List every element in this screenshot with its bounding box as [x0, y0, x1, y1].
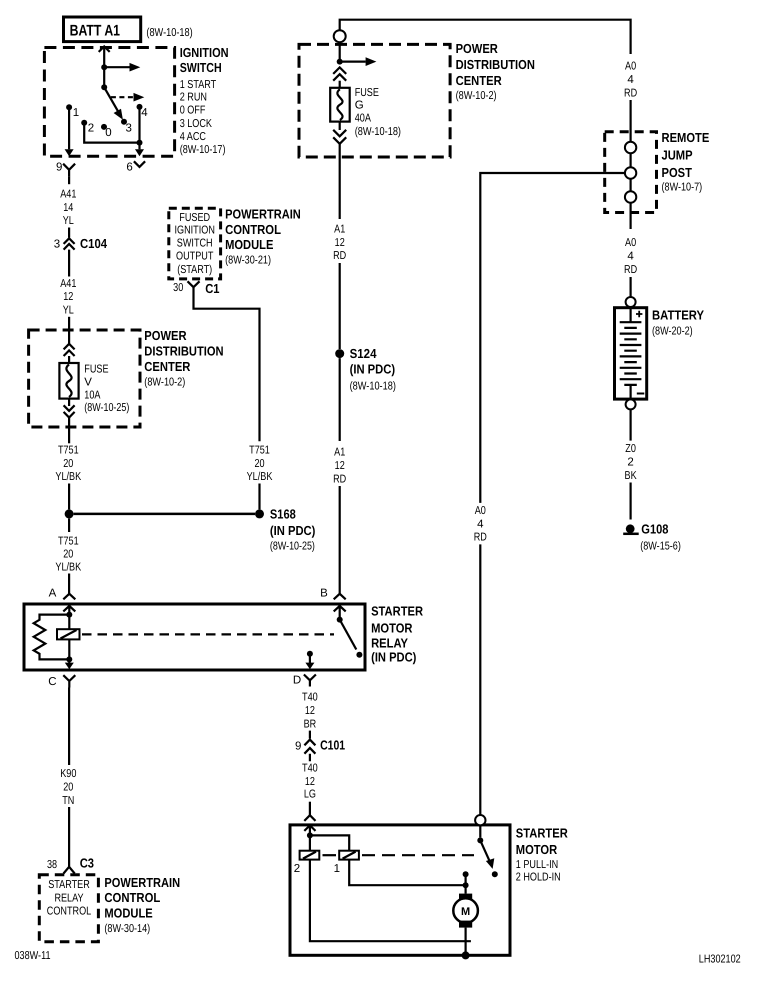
svg-text:POWERTRAIN: POWERTRAIN [104, 875, 180, 890]
svg-text:(8W-20-2): (8W-20-2) [652, 325, 693, 337]
svg-text:A: A [49, 588, 57, 600]
fuse G 40A [330, 87, 401, 138]
node relay common contact [337, 617, 343, 623]
wire eyelet to junction [339, 42, 341, 61]
pin B of relay [320, 588, 346, 620]
svg-text:YL/BK: YL/BK [247, 471, 273, 483]
svg-text:1: 1 [73, 107, 79, 119]
wire C1 to S168 column [194, 297, 260, 441]
wire relay coil [68, 615, 70, 660]
connector chevrons below fuse V [64, 405, 75, 417]
wire to starter motor solenoid [309, 802, 311, 816]
wire top feed line [340, 20, 631, 54]
svg-text:S168: S168 [270, 507, 296, 522]
svg-text:IGNITION: IGNITION [180, 45, 229, 60]
wire to battery [629, 277, 631, 297]
wire branch jump post to starter feed [480, 173, 625, 503]
svg-text:T751: T751 [58, 536, 79, 548]
svg-text:A41: A41 [60, 278, 76, 290]
svg-text:(8W-10-25): (8W-10-25) [270, 541, 315, 553]
svg-text:A0: A0 [625, 60, 636, 72]
wire A41 14 YL segment [68, 177, 70, 185]
svg-text:038W-11: 038W-11 [15, 950, 51, 962]
svg-text:2 RUN: 2 RUN [180, 91, 207, 103]
label wire A1 12 RD upper [333, 223, 346, 262]
label powertrain control module upper [225, 206, 301, 266]
svg-text:T40: T40 [302, 691, 318, 703]
wire stud to contact [479, 825, 481, 837]
wire to relay pin B [339, 486, 341, 594]
svg-text:POWERTRAIN: POWERTRAIN [225, 206, 301, 221]
svg-text:FUSE: FUSE [84, 364, 108, 376]
ground G108 [623, 521, 681, 552]
wire K90 segment [68, 688, 70, 766]
wire A0 down to starter motor [479, 544, 481, 815]
label wire T751 20 YL/BK upper [55, 445, 81, 484]
chevron inside starter entry [304, 825, 315, 835]
node splice S124 [335, 346, 396, 392]
svg-text:40A: 40A [355, 113, 371, 125]
svg-text:12: 12 [63, 291, 73, 303]
wire to C3 [68, 807, 70, 867]
label wire A0 4 RD to battery [624, 237, 637, 276]
svg-text:4: 4 [141, 107, 148, 119]
wire to fuse G [339, 81, 341, 88]
svg-text:SWITCH: SWITCH [177, 238, 213, 250]
wiper arrow solid right (RUN position) [104, 63, 140, 72]
svg-text:9: 9 [295, 741, 301, 753]
svg-text:(8W-10-25): (8W-10-25) [84, 402, 129, 414]
label wire A0 4 RD to starter [474, 505, 487, 544]
svg-text:YL: YL [63, 304, 75, 316]
svg-text:1 PULL-IN: 1 PULL-IN [516, 859, 558, 871]
svg-text:V: V [84, 376, 92, 388]
remote jump post dashed box [605, 132, 657, 213]
svg-text:D: D [293, 675, 301, 687]
svg-text:A1: A1 [334, 223, 345, 235]
svg-text:A0: A0 [475, 505, 486, 517]
node relay contact to pin D [307, 651, 313, 657]
svg-text:IGNITION: IGNITION [175, 225, 215, 237]
resistor in relay [34, 615, 70, 660]
svg-text:(IN PDC): (IN PDC) [270, 523, 316, 538]
wire T751 upper segment [68, 418, 70, 444]
svg-text:3 LOCK: 3 LOCK [180, 118, 213, 130]
svg-text:POWER: POWER [456, 41, 499, 56]
svg-text:T40: T40 [302, 762, 318, 774]
wire stud2 to stud3 [629, 179, 631, 192]
wire fuse G to chevrons [339, 122, 341, 130]
svg-text:POST: POST [662, 165, 692, 180]
svg-text:M: M [461, 906, 470, 918]
svg-text:12: 12 [335, 237, 345, 249]
label wire A41 14 YL [60, 189, 76, 228]
svg-text:C1: C1 [205, 281, 219, 296]
svg-text:A0: A0 [625, 237, 636, 249]
wire relay coil to pin C arrow [65, 659, 74, 669]
label remote jump post [662, 130, 710, 194]
svg-text:(8W-10-2): (8W-10-2) [144, 376, 185, 388]
svg-text:9: 9 [56, 162, 62, 174]
svg-text:A41: A41 [60, 189, 76, 201]
solenoid coil 2 hold-in [294, 851, 320, 875]
svg-text:BATT A1: BATT A1 [70, 22, 121, 39]
connector chevrons above fuse V [64, 344, 75, 356]
relay coil K1 [57, 629, 80, 639]
svg-text:YL/BK: YL/BK [55, 562, 81, 574]
svg-text:TN: TN [62, 795, 74, 807]
node splice S168 [255, 507, 315, 553]
node junction terminal 6 [137, 140, 143, 146]
node jump post stud 1 [625, 142, 636, 153]
node jump post stud 2 [625, 167, 636, 178]
wire to splice junction [68, 484, 70, 510]
starter motor relay box [24, 604, 365, 670]
svg-text:SWITCH: SWITCH [180, 60, 222, 75]
powertrain control module upper dashed box [169, 208, 221, 279]
pin A of relay [49, 588, 76, 615]
svg-text:RD: RD [333, 250, 346, 262]
svg-text:CENTER: CENTER [456, 73, 503, 88]
label starter motor relay [371, 604, 424, 665]
svg-text:POWER: POWER [144, 328, 187, 343]
node contact 0 [101, 124, 112, 139]
svg-text:BR: BR [304, 718, 317, 730]
wire A41 12 YL segment [68, 250, 70, 277]
wire feed to hold-in coil 2 [309, 835, 311, 850]
connector C1 pin 30 [173, 281, 219, 297]
svg-text:T751: T751 [249, 445, 270, 457]
wire to S124 [339, 263, 341, 349]
node contact 4 [137, 104, 149, 119]
label starter motor [516, 826, 569, 884]
svg-text:MOTOR: MOTOR [371, 620, 413, 635]
svg-text:2: 2 [294, 863, 300, 875]
svg-text:12: 12 [305, 776, 315, 788]
svg-text:C3: C3 [80, 856, 94, 871]
svg-text:STARTER: STARTER [371, 604, 424, 619]
svg-text:(8W-10-17): (8W-10-17) [180, 144, 226, 156]
wire to relay pin A [68, 574, 70, 594]
wire splice bus to S168 [74, 513, 255, 516]
dashed mechanical link of solenoid [323, 854, 475, 856]
svg-text:RD: RD [624, 264, 637, 276]
svg-text:20: 20 [63, 549, 73, 561]
label wire T40 12 BR [302, 691, 318, 730]
svg-text:4: 4 [627, 74, 634, 86]
svg-text:LG: LG [304, 789, 316, 801]
svg-text:CONTROL: CONTROL [47, 905, 92, 917]
battery B1 [615, 297, 705, 409]
wire PCM column to S168 [258, 484, 260, 510]
label wire Z0 2 BK [625, 443, 637, 482]
svg-text:T751: T751 [58, 445, 79, 457]
svg-text:0 OFF: 0 OFF [180, 105, 206, 117]
wire A1 12 RD lower segment [339, 358, 341, 441]
svg-text:(START): (START) [177, 264, 212, 276]
label powertrain control module lower [104, 875, 180, 935]
svg-text:(8W-10-2): (8W-10-2) [456, 90, 497, 102]
label wire T40 12 LG [302, 762, 318, 800]
svg-text:1 START: 1 START [180, 79, 217, 91]
node contact 3 [121, 119, 132, 135]
ignition switch S1 dashed box [44, 48, 174, 157]
svg-text:4: 4 [627, 251, 634, 263]
wire to ground G108 [629, 483, 631, 520]
arrow feed to other circuits [340, 57, 377, 66]
wire to C101 [309, 731, 311, 739]
svg-text:(8W-10-18): (8W-10-18) [355, 126, 401, 138]
wiper arm arrow to contact 3 [104, 87, 123, 120]
label wire A0 4 RD top right [624, 60, 637, 99]
relay moving contact arm [340, 620, 363, 658]
label wire A1 12 RD lower [333, 446, 346, 485]
wire fuse V to chevrons [68, 399, 70, 406]
svg-text:BATTERY: BATTERY [652, 308, 704, 323]
dashed mechanical link of relay [82, 633, 334, 635]
svg-text:A1: A1 [334, 446, 345, 458]
svg-text:1: 1 [334, 863, 340, 875]
svg-text:(8W-30-14): (8W-30-14) [104, 923, 150, 935]
svg-text:2 HOLD-IN: 2 HOLD-IN [516, 872, 561, 884]
node relay coil bottom [66, 656, 72, 662]
svg-text:2: 2 [88, 123, 94, 135]
label wire K90 20 TN [60, 768, 76, 807]
svg-text:OUTPUT: OUTPUT [176, 250, 213, 262]
svg-text:C101: C101 [320, 737, 345, 752]
svg-text:DISTRIBUTION: DISTRIBUTION [144, 344, 223, 359]
svg-text:4 ACC: 4 ACC [180, 131, 206, 143]
svg-text:38: 38 [47, 859, 57, 871]
svg-text:RD: RD [624, 87, 637, 99]
svg-text:BK: BK [625, 470, 637, 482]
wire coil 1 to motor feed [349, 860, 465, 886]
chevron at starter motor entry [304, 815, 315, 821]
wire Z0 segment [629, 410, 631, 441]
svg-text:30: 30 [173, 282, 183, 294]
svg-text:20: 20 [63, 782, 73, 794]
node coil1 junction on motor wire [463, 882, 469, 888]
svg-text:(8W-10-7): (8W-10-7) [662, 181, 703, 193]
svg-text:C: C [48, 676, 56, 688]
svg-text:FUSED: FUSED [179, 212, 210, 224]
node ignition wiper pivot [101, 84, 107, 90]
svg-text:B: B [320, 588, 328, 600]
wire motor to case ground [465, 928, 467, 956]
dashed wiper arrow (START travel) [111, 93, 144, 102]
wire feed to pull-in coil 1 [310, 835, 349, 850]
ignition switch labels [180, 45, 229, 156]
wire A1 12 RD upper segment [339, 144, 341, 219]
wire contact 4 down [138, 107, 140, 143]
svg-text:MOTOR: MOTOR [516, 842, 558, 857]
connector C101 pin 9 [295, 737, 345, 761]
svg-text:S124: S124 [350, 346, 378, 361]
svg-text:(IN PDC): (IN PDC) [350, 361, 396, 376]
svg-text:STARTER: STARTER [516, 826, 569, 841]
wire chevrons to fuse V [68, 356, 70, 363]
wire contact 1 to terminal 9 with arrow [65, 107, 74, 156]
pin C of relay [48, 675, 75, 688]
svg-text:10A: 10A [84, 389, 100, 401]
label wire A41 12 YL [60, 278, 76, 316]
svg-text:MODULE: MODULE [225, 237, 274, 252]
svg-text:CENTER: CENTER [144, 359, 191, 374]
connector chevrons below fuse G [333, 130, 346, 144]
wire into C104 [68, 228, 70, 238]
connector chevrons above fuse G [333, 67, 346, 80]
pin 6 connector symbol [126, 161, 145, 173]
node contact 2 [81, 120, 94, 135]
svg-text:RD: RD [333, 474, 346, 486]
solenoid coil 1 pull-in [334, 851, 359, 875]
pin 9 connector symbol [56, 162, 75, 177]
svg-text:RELAY: RELAY [371, 636, 408, 651]
pin D of relay [293, 675, 316, 687]
svg-text:RELAY: RELAY [54, 892, 83, 904]
svg-text:K90: K90 [60, 768, 76, 780]
svg-text:0: 0 [105, 127, 111, 139]
svg-text:FUSE: FUSE [355, 87, 379, 99]
svg-text:LH302102: LH302102 [699, 954, 741, 966]
label power distribution center left [144, 328, 223, 388]
label power distribution center top [456, 41, 535, 102]
starter moving contact arm arrow [480, 840, 498, 877]
svg-text:2: 2 [627, 457, 633, 469]
wire into PDC fuse V [68, 317, 70, 344]
svg-text:(8W-30-21): (8W-30-21) [225, 255, 271, 267]
svg-text:(IN PDC): (IN PDC) [371, 650, 416, 665]
power distribution center (left) dashed box [29, 330, 140, 427]
svg-text:REMOTE: REMOTE [662, 130, 710, 145]
svg-text:(8W-10-18): (8W-10-18) [146, 27, 192, 39]
wire relay pin D exit arrow [305, 654, 314, 670]
label fused ignition switch output (start) [175, 212, 215, 276]
wire A0 to remote jump post [629, 100, 631, 142]
svg-text:3: 3 [126, 123, 132, 135]
wire T751 lower segment [68, 518, 70, 532]
node BATT A1 feed box [64, 17, 193, 42]
motor M1 [453, 894, 478, 928]
svg-text:20: 20 [63, 458, 73, 470]
svg-text:G: G [355, 99, 364, 111]
svg-text:12: 12 [335, 460, 345, 472]
svg-text:12: 12 [305, 705, 315, 717]
wire motor feed [465, 874, 467, 893]
starter motor box [290, 825, 510, 955]
svg-text:3: 3 [54, 238, 60, 250]
wire jump post down [629, 203, 631, 229]
node ignition feed junction upper [101, 64, 107, 70]
node starter contact stationary [463, 871, 469, 877]
node junction at S168 branch [65, 509, 74, 518]
svg-text:Z0: Z0 [625, 443, 636, 455]
svg-text:CONTROL: CONTROL [225, 222, 281, 237]
powertrain control module lower dashed box [39, 875, 98, 942]
svg-text:STARTER: STARTER [48, 879, 90, 891]
svg-text:20: 20 [254, 458, 264, 470]
svg-text:DISTRIBUTION: DISTRIBUTION [456, 57, 535, 72]
svg-text:JUMP: JUMP [662, 148, 693, 163]
label wire T751 20 YL/BK from PCM [247, 445, 273, 484]
connector C3 pin 38 [47, 856, 94, 874]
node fuse G feed junction [337, 59, 343, 65]
node starter solenoid feed [307, 832, 313, 838]
svg-text:4: 4 [477, 519, 484, 531]
node relay coil top [66, 612, 72, 618]
svg-text:14: 14 [63, 202, 74, 214]
node starter contact common [477, 837, 483, 843]
wire coil 2 to motor ground bus [310, 860, 471, 942]
node contact 1 [66, 104, 79, 119]
svg-text:YL: YL [63, 215, 75, 227]
wire junction to terminal 6 exit arrow [135, 143, 144, 157]
node motor case ground on box [462, 951, 470, 959]
svg-text:6: 6 [126, 162, 132, 174]
svg-text:(8W-15-6): (8W-15-6) [640, 541, 681, 553]
svg-text:C104: C104 [80, 236, 108, 251]
wire ignition feed from BATT A1 with up chevron [99, 46, 110, 87]
svg-text:YL/BK: YL/BK [55, 471, 81, 483]
svg-text:G108: G108 [641, 521, 668, 536]
node eyelet at PDC feed [334, 30, 346, 42]
svg-text:CONTROL: CONTROL [104, 890, 160, 905]
wire stud1 to stud2 [629, 153, 631, 167]
node battery stud eyelet on starter [475, 815, 485, 825]
node jump post stud 3 [625, 191, 636, 202]
fuse V 10A [59, 363, 129, 414]
connector C104 pin 3 [54, 236, 108, 251]
label starter relay control [47, 879, 92, 917]
svg-text:RD: RD [474, 532, 487, 544]
wire contact 2 to terminal 6 [84, 123, 139, 143]
label wire T751 20 YL/BK lower [55, 536, 81, 574]
svg-text:MODULE: MODULE [104, 906, 153, 921]
power distribution center (top) dashed box [299, 44, 450, 157]
svg-text:(8W-10-18): (8W-10-18) [350, 380, 396, 392]
